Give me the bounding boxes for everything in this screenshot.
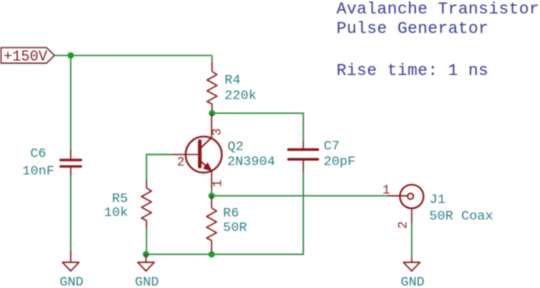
node junction emitter: [208, 193, 214, 199]
svg-text:1: 1: [383, 183, 391, 197]
svg-text:1: 1: [211, 180, 225, 188]
wire +150V label to junction: [55, 54, 71, 56]
svg-text:10nF: 10nF: [22, 164, 54, 179]
ground under J1: [401, 259, 425, 288]
resistor R4: [207, 63, 217, 113]
svg-text:Q2: Q2: [228, 139, 244, 154]
resistor R6: [207, 196, 217, 255]
capacitor C7: [289, 141, 318, 172]
wire base to R5 column: [147, 155, 173, 182]
node junction below R4: [209, 110, 215, 116]
wire emitter down: [211, 189, 213, 196]
node junction R6 bottom rail: [208, 251, 214, 257]
svg-text:50R: 50R: [223, 220, 247, 235]
svg-text:Pulse Generator: Pulse Generator: [337, 19, 489, 38]
power label +150V: [1, 48, 55, 66]
wire R5 bottom to rail: [146, 228, 148, 254]
svg-text:R6: R6: [223, 206, 239, 221]
svg-text:R4: R4: [225, 73, 241, 88]
wire C6 to ground: [70, 176, 72, 251]
resistor R5: [142, 181, 152, 228]
connector J1: [388, 185, 424, 223]
node junction at +150V: [68, 52, 74, 58]
wire junction to C7 column: [212, 113, 303, 141]
svg-text:Rise time: 1 ns: Rise time: 1 ns: [337, 61, 489, 80]
ground under C6: [60, 251, 84, 288]
wire top horizontal to R4 column: [71, 54, 212, 56]
node junction R5 bottom rail: [143, 251, 149, 257]
svg-text:50R Coax: 50R Coax: [429, 208, 493, 223]
svg-text:2: 2: [396, 221, 410, 229]
svg-text:2: 2: [177, 155, 185, 169]
svg-text:20pF: 20pF: [324, 154, 356, 169]
svg-text:+150V: +150V: [4, 50, 48, 66]
ground under rail: [135, 254, 159, 288]
wire J1 pin2 to ground: [411, 223, 413, 259]
svg-text:Avalanche Transistor: Avalanche Transistor: [337, 0, 540, 19]
wire C7 bottom down to ground rail: [146, 172, 303, 255]
svg-text:3: 3: [210, 128, 224, 136]
svg-text:C6: C6: [30, 146, 46, 161]
wire left rail down to C6: [70, 55, 72, 151]
transistor Q2: [172, 113, 222, 189]
capacitor C6: [61, 150, 82, 176]
svg-text:R5: R5: [112, 191, 128, 206]
svg-text:220k: 220k: [225, 88, 257, 103]
svg-text:GND: GND: [135, 275, 159, 288]
wire R4 top stub: [211, 55, 213, 64]
title text: [337, 0, 540, 80]
svg-text:J1: J1: [430, 192, 446, 207]
svg-text:GND: GND: [60, 275, 84, 288]
svg-text:2N3904: 2N3904: [227, 154, 275, 169]
wire emitter to J1: [212, 195, 388, 197]
svg-text:C7: C7: [324, 139, 340, 154]
svg-text:GND: GND: [401, 275, 425, 288]
svg-text:10k: 10k: [104, 205, 128, 220]
